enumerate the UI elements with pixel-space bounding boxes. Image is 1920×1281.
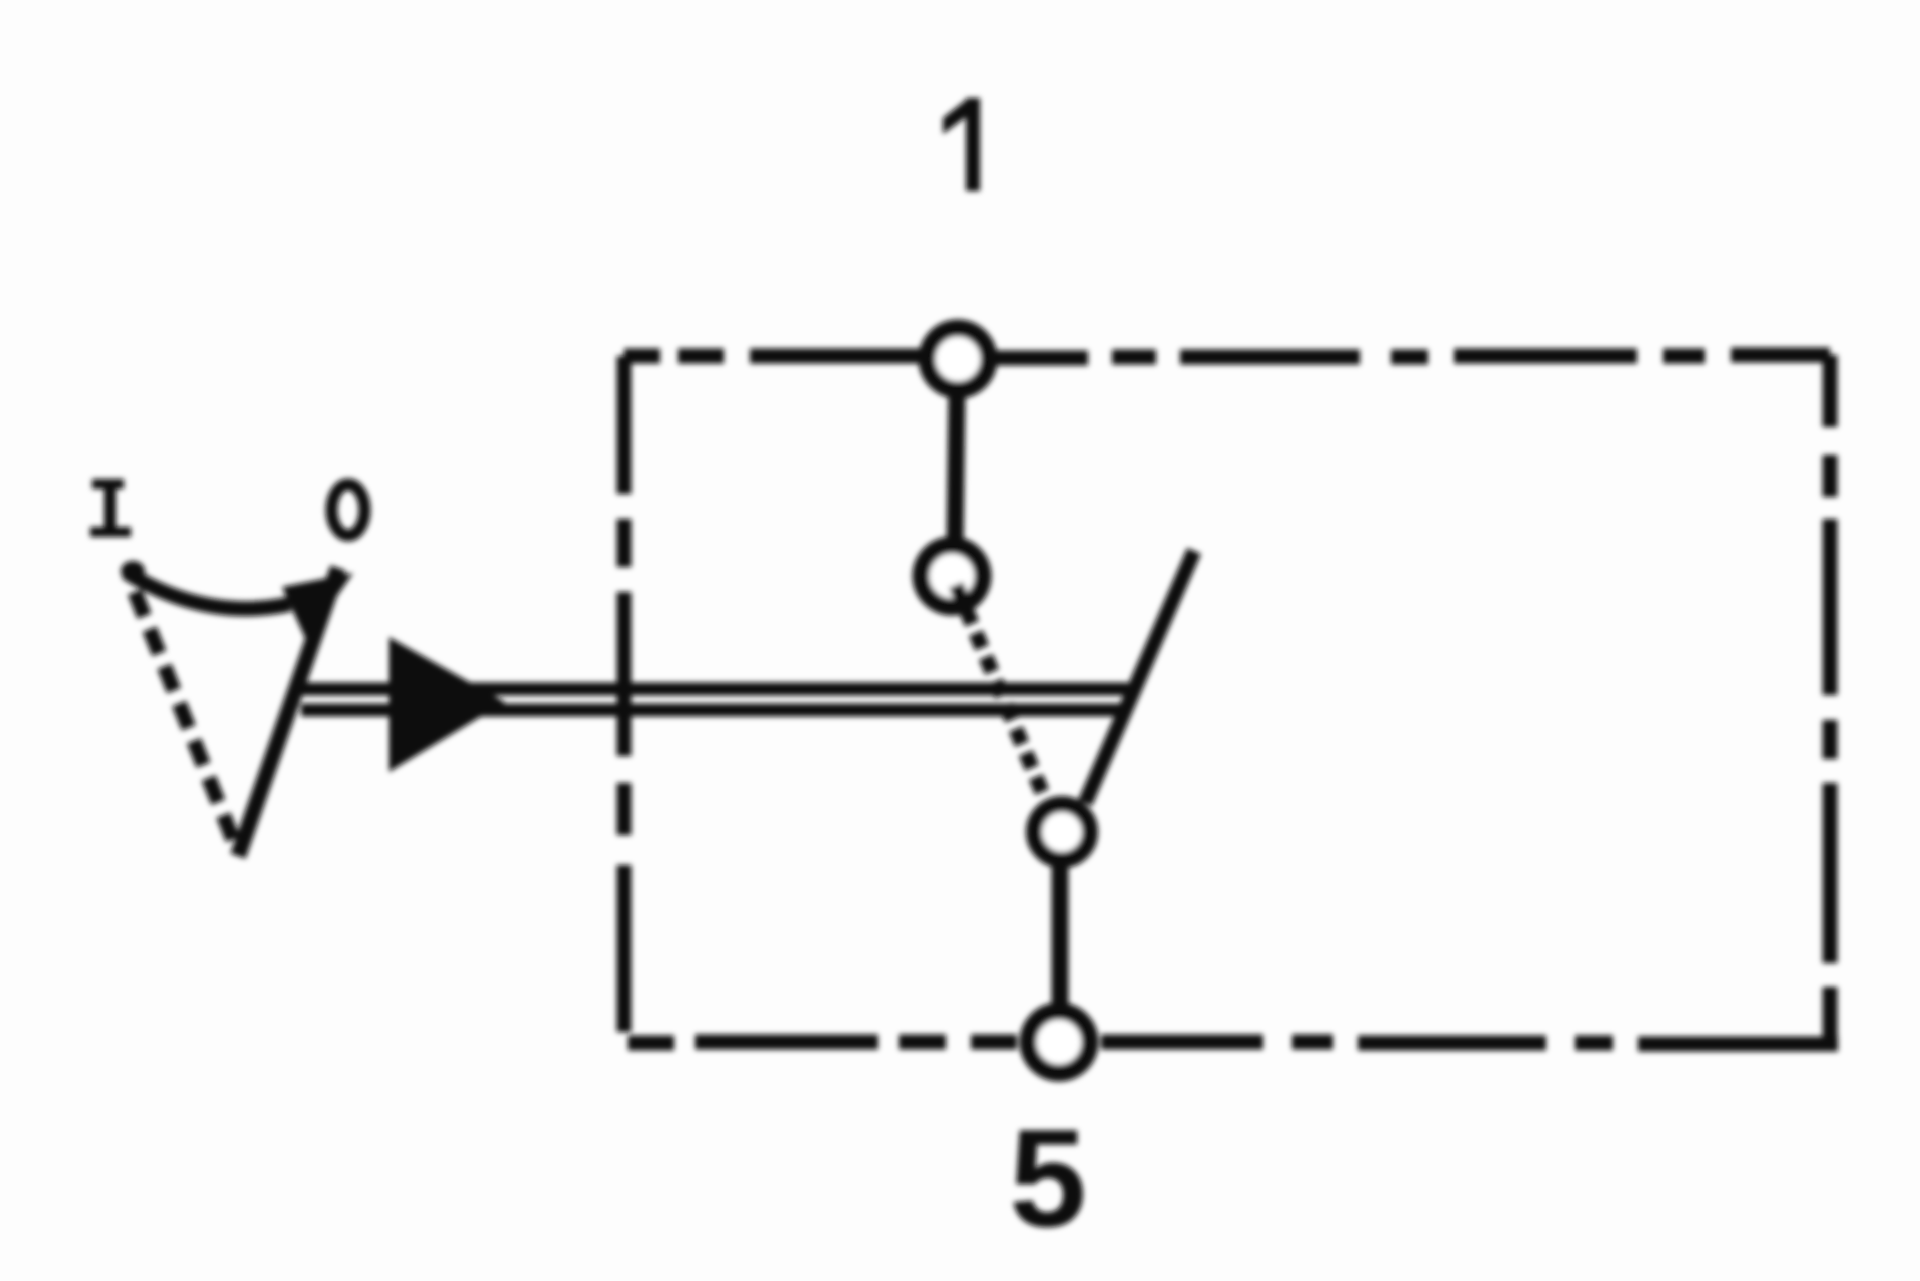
moving contact position I (dashed) bbox=[956, 585, 1050, 811]
enclosure box left edge (dash-dot) bbox=[617, 356, 632, 1032]
actuator travel arc start knob bbox=[121, 561, 145, 581]
terminal 5 circle bbox=[1028, 1011, 1090, 1073]
actuator lever position I (dashed) bbox=[135, 592, 238, 852]
enclosure box right edge (dash-dot) bbox=[1823, 355, 1838, 1044]
actuator position label 0 bbox=[332, 485, 365, 536]
actuator position label I bbox=[90, 479, 131, 537]
terminal 5 label bbox=[1009, 1101, 1086, 1256]
enclosure box bottom edge (dash-dot) bbox=[628, 1042, 1838, 1044]
terminal 1 label bbox=[943, 98, 980, 191]
contact pivot circle bbox=[1034, 804, 1090, 860]
wire: terminal 1 to fixed contact bbox=[955, 388, 957, 547]
actuator shaft double line top bbox=[301, 683, 1128, 696]
actuator lever position 0 (solid) bbox=[238, 568, 338, 856]
actuator travel arc bbox=[126, 572, 290, 609]
terminal 1 circle bbox=[927, 328, 989, 390]
enclosure box top edge (dash-dot) bbox=[624, 355, 1830, 358]
actuator shaft arrowhead bbox=[389, 637, 505, 772]
wire: pivot to terminal 5 bbox=[1052, 860, 1069, 1014]
actuator shaft double line bottom bbox=[301, 704, 1128, 717]
moving contact position 0 (solid) bbox=[1085, 551, 1194, 803]
svg-text:5: 5 bbox=[1009, 1101, 1086, 1256]
actuator travel arrowhead bbox=[282, 573, 353, 640]
fixed contact circle bbox=[921, 545, 983, 607]
